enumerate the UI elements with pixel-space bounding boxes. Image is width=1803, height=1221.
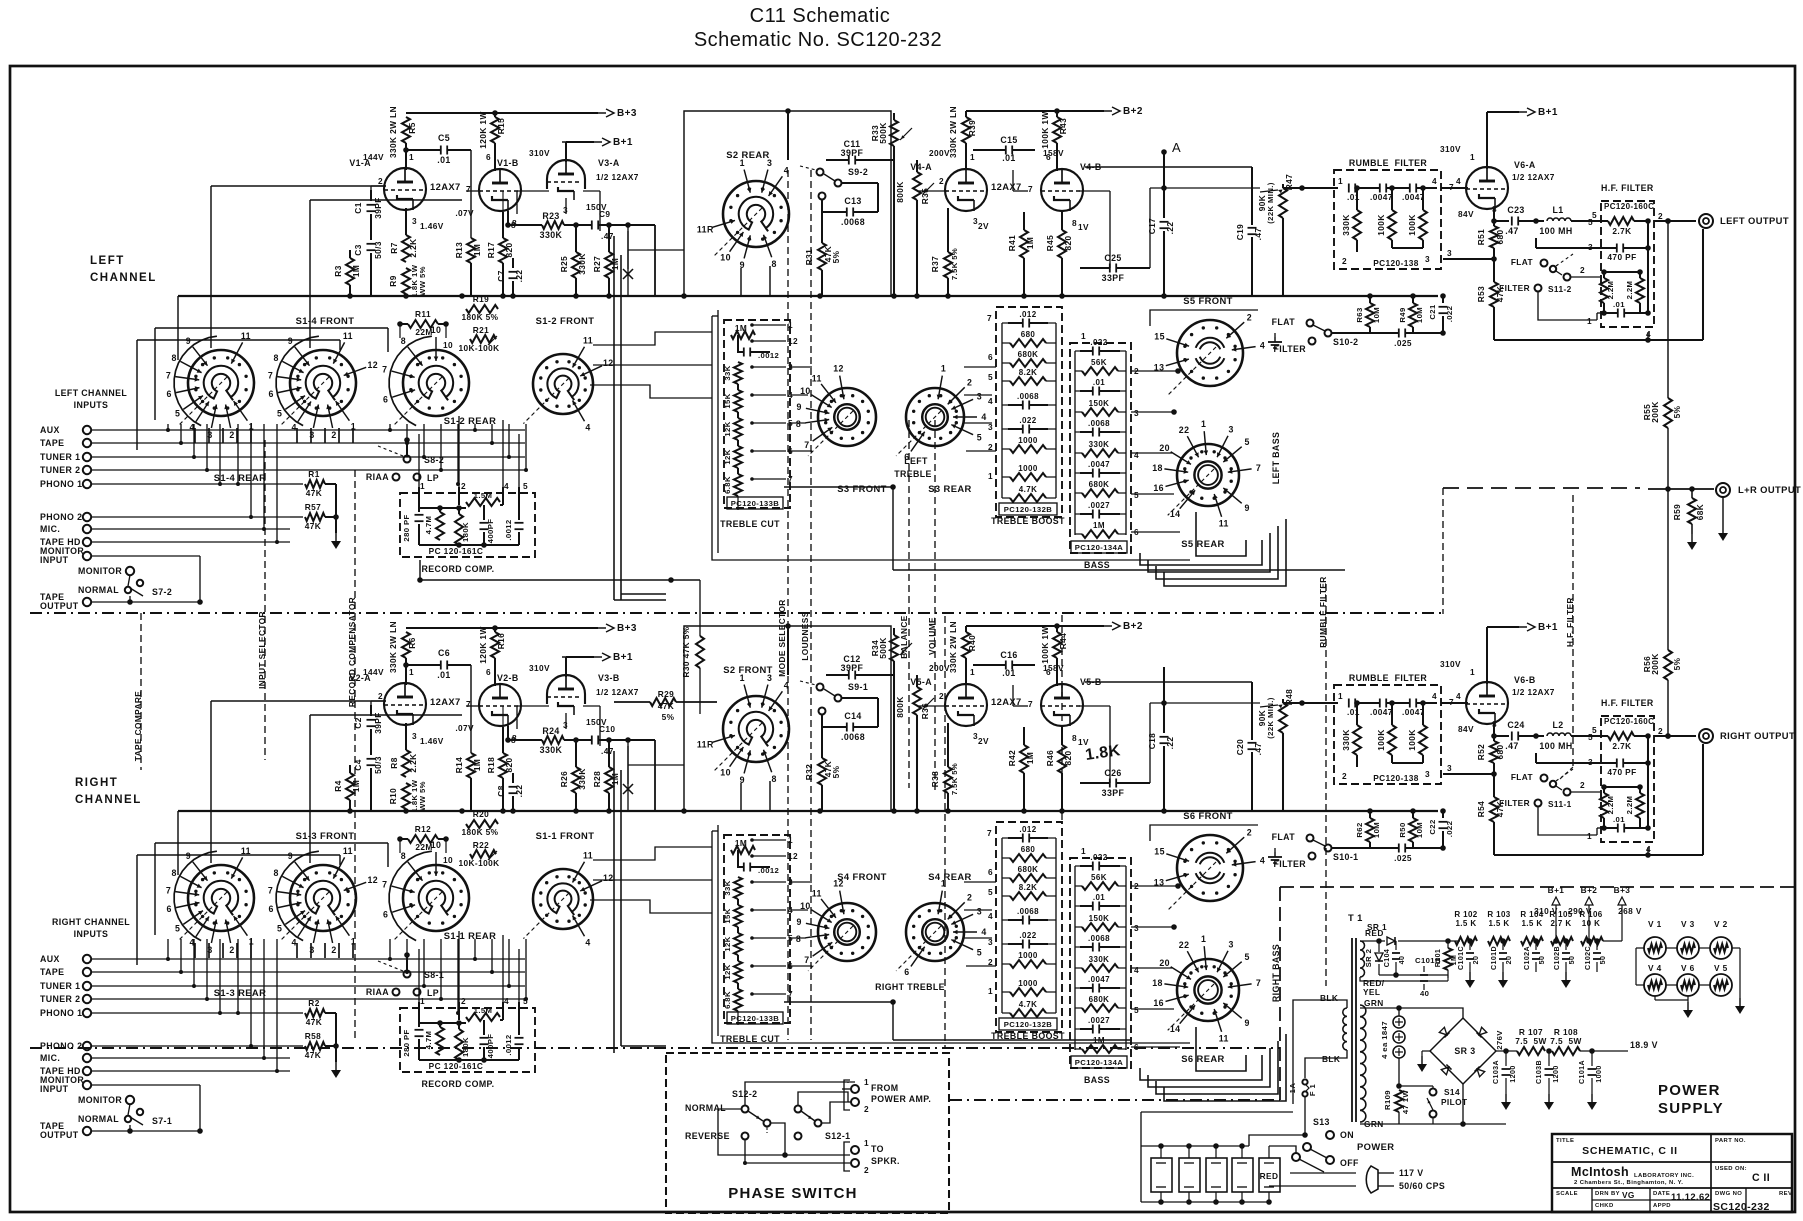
svg-text:5: 5 [977,433,982,443]
resistor HF 2.2M a LEFT [1603,272,1605,278]
svg-text:8: 8 [401,336,406,346]
B+1 arrow LEFT [566,141,594,143]
svg-text:R41: R41 [1007,235,1017,251]
svg-text:PC120-138: PC120-138 [1373,773,1419,783]
svg-text:R3: R3 [333,265,343,276]
svg-text:S7-2: S7-2 [152,587,172,597]
capacitor C104 40 [1395,941,1397,950]
capacitor C15 .01 [973,149,1005,151]
svg-text:.0012: .0012 [504,1034,513,1055]
svg-text:FLAT: FLAT [1511,772,1533,782]
svg-text:R27: R27 [592,256,602,272]
capacitor treble-boost .022 LEFT [1008,428,1022,430]
svg-text:.0068: .0068 [1017,907,1039,916]
svg-text:R40: R40 [967,635,977,651]
svg-text:1000: 1000 [1018,464,1038,473]
resistor R3 1M [349,250,351,258]
svg-text:4.7K: 4.7K [1019,1000,1038,1009]
svg-text:.01: .01 [437,155,450,165]
wire S2 block bottom drops upper [740,268,742,296]
svg-text:INPUTS: INPUTS [74,929,109,939]
svg-text:.0012: .0012 [504,519,513,540]
svg-text:BALANCE: BALANCE [899,615,909,658]
resistor R52 680 [1493,736,1495,741]
resistor R40 330K 2W LN [962,632,970,658]
svg-text:TUNER 2: TUNER 2 [40,994,80,1004]
resistor R27 1M [608,225,610,252]
input routing wires LEFT [167,424,169,430]
svg-text:R14: R14 [454,757,464,773]
svg-text:14: 14 [1170,509,1181,519]
svg-text:1.5 K: 1.5 K [1488,919,1509,928]
svg-text:12: 12 [603,358,614,368]
resistor R108 7.5 5W [1552,1047,1580,1055]
svg-text:C13: C13 [844,196,861,206]
svg-text:V 3: V 3 [1681,919,1695,929]
svg-text:20: 20 [1505,956,1513,965]
svg-text:C101A: C101A [1578,1060,1586,1084]
svg-text:290 V: 290 V [1568,906,1592,916]
svg-text:5: 5 [1134,490,1139,500]
svg-text:LEFT BASS: LEFT BASS [1271,432,1281,484]
svg-text:6: 6 [1046,667,1051,677]
svg-text:6: 6 [988,867,993,877]
svg-text:5%: 5% [1672,657,1682,670]
svg-text:.0047: .0047 [1370,707,1393,717]
filter can 1 [1151,1158,1172,1192]
inductor L1 100 MH [1547,218,1571,221]
capacitor C28 .025 [1398,844,1400,853]
resistor treble-cut 15K RIGHT [734,905,742,927]
svg-text:2: 2 [1658,726,1663,736]
H.F. filter dashed box LEFT [1601,201,1654,327]
svg-text:R11: R11 [415,309,431,319]
svg-text:S5 FRONT: S5 FRONT [1183,295,1233,306]
svg-text:RED: RED [1260,1171,1279,1181]
ground at SR3 left [1422,1050,1430,1052]
svg-text:11: 11 [812,373,822,383]
svg-text:2.2M: 2.2M [1606,796,1615,815]
resistor record-comp 1.5M LEFT [466,498,500,506]
svg-text:6.8K: 6.8K [723,476,732,494]
svg-text:6: 6 [269,904,274,914]
resistor R51 680 [1493,221,1495,226]
rotary switch S5 REAR [1177,444,1239,506]
svg-text:22: 22 [1179,425,1190,435]
svg-text:R50: R50 [1398,822,1407,837]
rotary switch S1-3 FRONT [188,865,254,931]
svg-text:1: 1 [420,481,425,491]
svg-text:LEFT OUTPUT: LEFT OUTPUT [1720,215,1789,226]
svg-text:2: 2 [1247,313,1252,323]
svg-text:1: 1 [420,996,425,1006]
svg-text:15K: 15K [723,908,732,923]
resistor treble-cut 33K LEFT [734,362,742,384]
svg-text:3: 3 [309,945,314,955]
svg-text:40: 40 [1398,956,1406,965]
svg-text:R59: R59 [1672,504,1682,520]
wire can loop left [1140,1146,1142,1202]
svg-text:680: 680 [1021,330,1036,339]
svg-text:1: 1 [1081,846,1086,856]
svg-text:B+2: B+2 [1123,106,1143,117]
svg-text:RECORD COMP.: RECORD COMP. [421,564,494,574]
svg-text:820: 820 [504,242,514,257]
svg-text:V5-A: V5-A [910,677,932,687]
capacitor C2 39PF [370,705,372,716]
svg-text:LEFT: LEFT [904,456,928,466]
resistor R37 7.5K 5% [947,208,949,252]
svg-text:7.5K 5%: 7.5K 5% [950,763,959,795]
svg-text:SUPPLY: SUPPLY [1658,1100,1724,1117]
rotary switch S6 REAR [1177,959,1239,1021]
capacitor treble-cut .0012 RIGHT [743,863,745,872]
resistor treble-boost 1000 RIGHT [1010,960,1046,968]
svg-text:AUX: AUX [40,954,60,964]
svg-text:100K 1W: 100K 1W [1040,111,1050,148]
svg-text:.0012: .0012 [758,866,779,875]
wire selector pin drops LEFT [194,428,196,443]
svg-text:8: 8 [1072,218,1077,228]
inductor L2 100 MH [1547,733,1571,736]
svg-text:12K: 12K [723,964,732,979]
ground below C101C [1469,972,1471,980]
resistor R24 330K [508,739,542,741]
svg-text:3: 3 [1447,763,1452,773]
svg-text:RUMBLE FILTER: RUMBLE FILTER [1318,576,1328,647]
wire filter ground leg RIGHT [1538,807,1597,835]
svg-text:C II: C II [1752,1172,1770,1184]
svg-text:4: 4 [1456,176,1461,186]
svg-text:R52: R52 [1476,744,1486,760]
svg-text:3: 3 [1229,425,1234,435]
svg-text:BLK: BLK [1322,1054,1340,1064]
svg-text:11: 11 [343,331,353,341]
svg-text:1M: 1M [1093,521,1105,530]
wire SR3 bottom to GRN [1462,1084,1464,1124]
svg-text:.47: .47 [1505,226,1518,236]
resistor record-comp 4.7M LEFT [439,508,441,512]
svg-text:1: 1 [788,835,793,845]
svg-text:S2 FRONT: S2 FRONT [723,664,773,675]
svg-text:10: 10 [720,252,731,262]
svg-text:18.9 V: 18.9 V [1630,1040,1658,1050]
svg-text:.0068: .0068 [841,732,865,742]
svg-text:7: 7 [804,440,809,450]
svg-text:C102A: C102A [1523,946,1531,970]
svg-text:S1-3 FRONT: S1-3 FRONT [296,830,355,841]
svg-text:(22K MIN.): (22K MIN.) [1266,182,1275,224]
wire tone block frame RIGHT [712,831,1190,1043]
svg-text:B+3: B+3 [617,623,637,634]
H.F. filter dashed box RIGHT [1601,716,1654,842]
svg-text:C102C: C102C [1584,946,1592,970]
svg-text:POWER AMP.: POWER AMP. [871,1094,931,1104]
wire V1 grid to selector RIGHT [211,700,386,702]
svg-text:V 2: V 2 [1714,919,1728,929]
svg-text:1/2 12AX7: 1/2 12AX7 [1512,687,1555,697]
resistor rumble 100K b RIGHT [1422,703,1424,725]
svg-text:820: 820 [1063,235,1073,250]
capacitor record-comp 280PF RIGHT [418,1008,420,1027]
svg-text:.47: .47 [1505,741,1518,751]
svg-text:7: 7 [987,313,992,323]
svg-text:1.5M: 1.5M [474,491,493,500]
svg-text:TREBLE: TREBLE [894,469,932,479]
svg-text:R25: R25 [559,256,569,272]
svg-text:12: 12 [833,364,844,374]
svg-text:800K: 800K [895,696,905,717]
svg-text:8: 8 [796,419,801,429]
capacitor C22 .022 [1442,811,1444,818]
svg-text:V4-A: V4-A [910,162,932,172]
svg-text:2: 2 [461,481,466,491]
capacitor C101D 20 [1502,941,1504,950]
terminal TO SPKR 2 [851,1159,859,1167]
svg-text:820: 820 [504,757,514,772]
svg-text:RUMBLE FILTER: RUMBLE FILTER [1349,673,1427,683]
svg-text:7: 7 [804,955,809,965]
svg-text:FLAT: FLAT [1272,832,1296,842]
svg-text:REVERSE: REVERSE [685,1131,730,1141]
svg-text:3: 3 [207,945,212,955]
B+2 arrow RIGHT [1072,625,1112,627]
svg-text:2: 2 [864,1165,869,1175]
svg-text:PC120-160C: PC120-160C [1604,202,1654,211]
capacitor C103B 1200 [1548,1051,1550,1066]
svg-text:11.12.62: 11.12.62 [1671,1191,1710,1202]
svg-text:8: 8 [796,934,801,944]
capacitor C-rf5 .0047 [1379,699,1381,708]
wire bass switch frame LEFT [1150,310,1258,326]
svg-text:R21: R21 [473,325,489,335]
svg-text:330K: 330K [540,230,563,240]
svg-text:S9-2: S9-2 [848,167,868,177]
svg-text:100K: 100K [1407,729,1417,750]
capacitor bass .0047 LEFT [1080,472,1092,474]
wire mode selector feed [420,579,700,581]
svg-text:SR 1: SR 1 [1367,922,1387,932]
potentiometer R22 10K-100K [470,850,496,858]
svg-text:C10: C10 [599,724,615,734]
svg-text:10: 10 [443,340,453,350]
svg-text:3: 3 [1425,769,1430,779]
svg-text:R13: R13 [454,242,464,258]
svg-text:1V: 1V [1078,222,1089,232]
svg-text:V 4: V 4 [1648,963,1662,973]
svg-text:VOLUME: VOLUME [927,617,937,655]
svg-text:9: 9 [1244,503,1249,513]
svg-text:5%: 5% [662,712,675,722]
terminal TO SPKR 1 [851,1146,859,1154]
B+2 arrow LEFT [1072,110,1112,112]
svg-text:2: 2 [461,996,466,1006]
resistor record-comp 4.7M RIGHT [439,1023,441,1027]
svg-text:3: 3 [977,906,982,916]
svg-text:7: 7 [166,371,171,381]
resistor treble-cut 15K LEFT [734,390,742,412]
svg-text:1200: 1200 [1552,1065,1560,1082]
svg-text:16: 16 [1153,998,1164,1008]
svg-text:POWER: POWER [1658,1082,1721,1099]
svg-text:22M: 22M [415,327,432,337]
svg-text:4: 4 [585,422,590,432]
heater tube V4 [1644,974,1666,996]
svg-text:400PF: 400PF [486,1034,495,1059]
resistor R45 820 [1061,212,1063,230]
svg-text:C6: C6 [438,648,450,658]
resistor HF 2.2M b LEFT [1639,272,1641,278]
svg-text:.22: .22 [514,785,524,798]
svg-text:2: 2 [939,691,944,701]
resistor treble-boost 680 RIGHT [1010,854,1046,862]
svg-text:1: 1 [1081,331,1086,341]
svg-text:DRN BY: DRN BY [1595,1191,1620,1197]
switch S8-2 RIAA/LP [404,456,411,463]
wire rumble filter input RIGHT [1283,702,1338,704]
svg-text:4: 4 [1432,176,1437,186]
svg-text:47K: 47K [305,1050,321,1060]
svg-text:C22: C22 [1428,819,1437,834]
svg-text:.01: .01 [1093,378,1105,387]
svg-text:PHONO 2: PHONO 2 [40,1041,82,1051]
svg-text:RECORD COMPENSATOR: RECORD COMPENSATOR [347,597,357,707]
svg-text:1V: 1V [1078,737,1089,747]
svg-text:680: 680 [1021,845,1036,854]
resistor R29 47K 5% [614,701,650,703]
svg-text:6: 6 [167,389,172,399]
svg-text:33PF: 33PF [1102,273,1125,283]
svg-text:1.5 K: 1.5 K [1455,919,1476,928]
svg-text:11: 11 [583,336,593,346]
power supply boundary dash line [950,1099,1280,1101]
svg-text:TUNER 1: TUNER 1 [40,981,80,991]
svg-text:47K: 47K [306,1017,322,1027]
svg-text:SR 3: SR 3 [1454,1046,1475,1056]
svg-text:S10-1: S10-1 [1333,852,1358,862]
svg-text:470 PF: 470 PF [1607,767,1636,777]
resistor treble-boost 8.2K RIGHT [1010,892,1046,900]
svg-text:C21: C21 [1428,304,1437,320]
capacitor bass .0027 RIGHT [1080,1028,1092,1030]
wire selector pin drops RIGHT [194,943,196,958]
triode V3-B (1/2 12AX7) [547,675,585,704]
resistor rumble 100K b LEFT [1422,188,1424,210]
svg-text:4: 4 [291,422,296,432]
svg-text:50: 50 [1568,956,1576,965]
svg-text:OFF: OFF [1340,1158,1359,1168]
capacitor C23 .47 [1511,217,1513,226]
resistor bass 150K RIGHT [1082,923,1118,931]
svg-text:S1-2 FRONT: S1-2 FRONT [536,315,595,326]
svg-text:R109: R109 [1383,1090,1392,1110]
svg-text:10M: 10M [1372,307,1381,323]
svg-text:.012: .012 [1019,825,1036,834]
svg-text:L2: L2 [1552,720,1563,730]
svg-text:C23: C23 [1507,205,1524,215]
svg-text:5: 5 [175,923,180,933]
svg-text:6: 6 [167,904,172,914]
svg-text:680K: 680K [1018,350,1039,359]
svg-text:47K: 47K [306,488,322,498]
svg-text:8: 8 [274,868,279,878]
svg-text:C15: C15 [1000,135,1017,145]
svg-text:INPUT: INPUT [40,555,69,565]
power plug [1366,1166,1378,1193]
svg-text:R16: R16 [496,633,506,649]
svg-text:INPUTS: INPUTS [74,400,109,410]
svg-text:1: 1 [988,471,993,481]
capacitor C8 .22 [512,773,514,783]
svg-text:BASS: BASS [1084,1075,1110,1085]
capacitor C101C 20 [1469,941,1471,950]
svg-text:1: 1 [788,320,793,330]
svg-text:V3-A: V3-A [598,158,620,168]
wire cans bottom bus [1141,1201,1269,1203]
svg-text:LP: LP [427,988,439,998]
svg-text:RECORD COMP.: RECORD COMP. [421,1079,494,1089]
resistor R15 120K 1W [491,117,499,143]
svg-text:2.2M: 2.2M [1606,281,1615,300]
svg-text:7.5 5W: 7.5 5W [1515,1036,1546,1046]
resistor bass 330K LEFT [1082,449,1118,457]
svg-text:3: 3 [1425,254,1430,264]
svg-text:C9: C9 [599,209,610,219]
svg-text:SCHEMATIC, C II: SCHEMATIC, C II [1582,1145,1678,1157]
resistor R28 1M [608,740,610,767]
svg-text:B+1: B+1 [1548,885,1565,895]
svg-text:330K: 330K [1341,729,1351,750]
resistor treble-cut 12K LEFT [734,418,742,440]
svg-text:180K 5%: 180K 5% [462,827,499,837]
capacitor C21 .022 [1442,296,1444,303]
svg-text:PHONO 1: PHONO 1 [40,1008,82,1018]
svg-text:200K: 200K [1650,653,1660,674]
svg-text:47 1W: 47 1W [1401,1090,1410,1115]
svg-text:330K: 330K [577,253,587,274]
resistor R106 10K [1581,937,1603,945]
svg-text:680K: 680K [1089,995,1110,1004]
resistor R62 10M [1369,811,1371,818]
svg-text:LABORATORY INC.: LABORATORY INC. [1634,1173,1694,1179]
wire grid feeds RIGHT [371,700,386,702]
resistor R1 47K [305,480,325,488]
capacitor record-comp .0012 LEFT [518,505,520,520]
resistor R20 180K 5% [466,820,498,828]
svg-text:50: 50 [1599,956,1607,965]
cathode bus wire RIGHT [178,810,1438,812]
ganged control dashed line VOLUME [934,420,936,790]
svg-text:180K 5%: 180K 5% [462,312,499,322]
rotary switch S1-1 REAR [403,865,469,931]
svg-text:R19: R19 [473,294,489,304]
svg-text:PC120-134A: PC120-134A [1075,1058,1123,1067]
svg-text:40: 40 [1420,989,1429,998]
svg-text:C11 Schematic: C11 Schematic [750,5,891,27]
capacitor C-rf6 .0047 [1409,699,1411,708]
rotary switch S4 REAR [906,903,964,961]
svg-text:1: 1 [941,364,946,374]
svg-text:1: 1 [1587,316,1592,326]
svg-text:2.2M: 2.2M [1625,281,1634,300]
ground below R58 [335,1062,337,1070]
record comp internal wires RIGHT [419,1022,466,1024]
svg-text:R15: R15 [496,118,506,134]
resistor treble-cut 12K RIGHT [734,933,742,955]
filter can 2 [1179,1158,1200,1192]
svg-text:2.2M: 2.2M [1625,796,1634,815]
capacitor C18 .22 [1163,667,1165,733]
